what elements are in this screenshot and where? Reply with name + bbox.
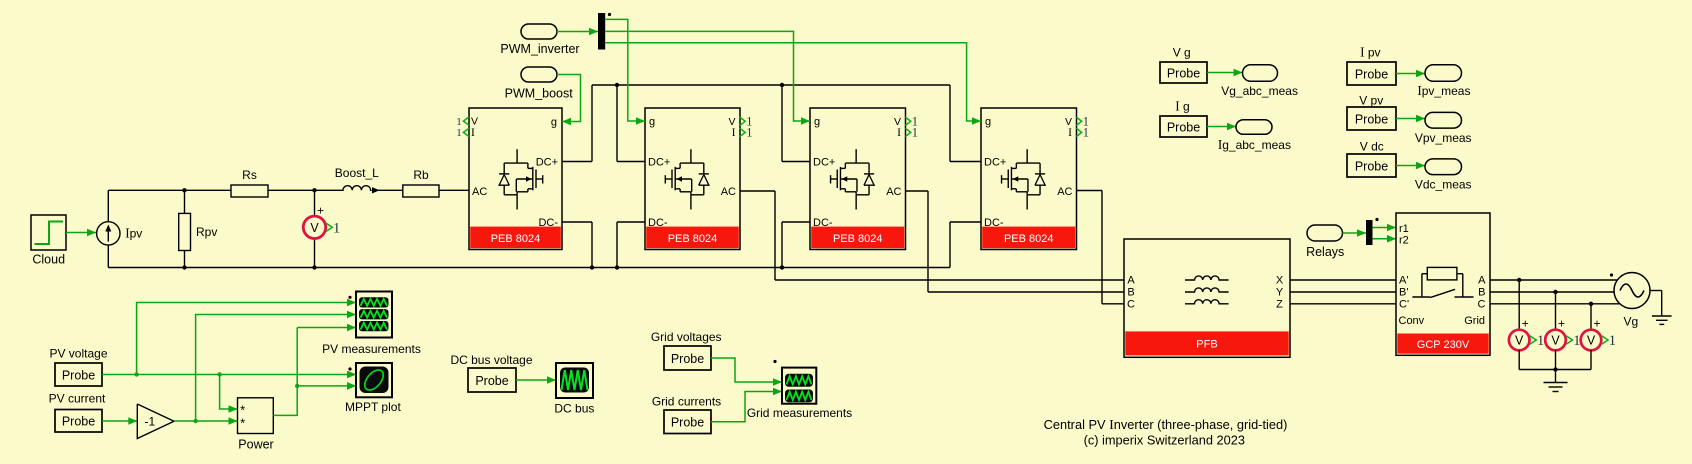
svg-text:Boost_L: Boost_L [335,166,379,180]
svg-text:Y: Y [1276,286,1284,298]
svg-text:AC: AC [1057,186,1072,198]
svg-text:DC-: DC- [813,217,833,229]
svg-text:Vg_abc_meas: Vg_abc_meas [1221,84,1298,98]
svg-text:PWM_boost: PWM_boost [505,86,574,100]
svg-text:C': C' [1399,298,1409,310]
svg-text:PWM_inverter: PWM_inverter [500,42,579,56]
svg-text:Vg: Vg [1624,315,1639,329]
svg-text:I: I [897,126,901,139]
svg-text:1: 1 [746,126,752,140]
svg-text:I: I [471,126,475,139]
svg-text:Probe: Probe [1167,120,1200,134]
svg-text:V: V [1551,334,1560,348]
svg-text:Cloud: Cloud [32,253,65,267]
svg-text:Probe: Probe [1355,159,1388,173]
svg-text:PEB 8024: PEB 8024 [833,233,883,245]
svg-text:DC+: DC+ [536,157,558,169]
svg-text:Conv: Conv [1399,315,1425,327]
svg-text:PFB: PFB [1196,339,1217,351]
svg-text:r2: r2 [1399,235,1409,247]
svg-text:1: 1 [456,116,462,128]
svg-text:Probe: Probe [1355,112,1388,126]
svg-text:+: + [1558,317,1565,331]
svg-text:V: V [1515,334,1524,348]
svg-text:1: 1 [1609,333,1616,349]
svg-text:DC bus voltage: DC bus voltage [450,353,532,367]
svg-text:1: 1 [333,220,340,236]
svg-text:B: B [1478,286,1485,298]
svg-text:Power: Power [238,437,273,451]
svg-text:Vpv_meas: Vpv_meas [1415,131,1472,145]
svg-text:1: 1 [456,127,462,139]
svg-text:Central PV Inverter (three-pha: Central PV Inverter (three-phase, grid-t… [1044,417,1288,433]
svg-text:g: g [814,116,820,128]
svg-text:Ipv_meas: Ipv_meas [1417,83,1470,98]
svg-text:1: 1 [1537,333,1544,349]
svg-text:g: g [649,116,655,128]
svg-text:Rs: Rs [242,168,257,182]
svg-text:g: g [985,116,991,128]
svg-text:C: C [1127,298,1135,310]
svg-text:PV current: PV current [49,392,106,406]
svg-text:B: B [1127,286,1134,298]
svg-text:I g: I g [1175,99,1189,114]
svg-text:DC+: DC+ [648,157,670,169]
svg-text:Probe: Probe [1355,67,1388,81]
svg-text:AC: AC [721,186,736,198]
svg-text:(c) imperix Switzerland 2023: (c) imperix Switzerland 2023 [1084,433,1245,448]
svg-text:GCP 230V: GCP 230V [1417,339,1470,351]
svg-text:V dc: V dc [1360,139,1384,153]
svg-text:B': B' [1399,286,1408,298]
svg-text:r1: r1 [1399,223,1409,235]
svg-text:V pv: V pv [1359,93,1383,107]
svg-text:1: 1 [1083,126,1089,140]
svg-text:V: V [1587,334,1596,348]
svg-text:Vdc_meas: Vdc_meas [1415,178,1472,192]
svg-text:g: g [551,116,557,128]
svg-text:V: V [310,221,319,235]
svg-text:+: + [1593,317,1600,331]
svg-text:V g: V g [1173,46,1191,60]
svg-text:Rb: Rb [413,168,429,182]
svg-text:A: A [1127,274,1135,286]
svg-text:Probe: Probe [475,374,508,388]
svg-text:DC+: DC+ [984,157,1006,169]
svg-text:I: I [1068,126,1072,139]
svg-text:DC bus: DC bus [554,402,594,416]
svg-text:Probe: Probe [62,368,95,382]
svg-text:PV voltage: PV voltage [49,347,107,361]
svg-text:AC: AC [886,186,901,198]
svg-text:I: I [732,126,736,139]
svg-text:Z: Z [1276,298,1283,310]
svg-text:A': A' [1399,274,1408,286]
svg-text:DC-: DC- [984,217,1004,229]
svg-text:X: X [1276,274,1284,286]
svg-text:I pv: I pv [1360,45,1380,60]
svg-text:Ig_abc_meas: Ig_abc_meas [1218,137,1291,152]
svg-text:Ipv: Ipv [125,226,142,241]
svg-text:PEB 8024: PEB 8024 [668,233,718,245]
svg-text:Rpv: Rpv [196,225,217,239]
svg-text:Probe: Probe [671,352,704,366]
svg-text:-1: -1 [144,415,155,429]
svg-text:C: C [1478,298,1486,310]
svg-text:DC+: DC+ [813,157,835,169]
svg-text:Probe: Probe [671,416,704,430]
svg-text:PEB 8024: PEB 8024 [491,233,541,245]
svg-text:Grid: Grid [1464,315,1485,327]
svg-text:*: * [240,415,245,430]
svg-text:AC: AC [472,186,487,198]
svg-text:Probe: Probe [1167,66,1200,80]
svg-text:A: A [1478,274,1486,286]
svg-text:Probe: Probe [62,415,95,429]
svg-text:1: 1 [912,126,918,140]
svg-text:DC-: DC- [538,217,558,229]
svg-text:+: + [317,204,324,218]
svg-text:+: + [1522,317,1529,331]
svg-text:Grid measurements: Grid measurements [747,406,852,420]
svg-text:Grid currents: Grid currents [652,394,721,408]
svg-text:DC-: DC- [648,217,668,229]
svg-text:PV measurements: PV measurements [322,342,421,356]
svg-text:Grid voltages: Grid voltages [651,330,722,344]
svg-text:Relays: Relays [1306,245,1344,259]
svg-text:PEB 8024: PEB 8024 [1004,233,1054,245]
svg-text:MPPT plot: MPPT plot [345,400,401,414]
